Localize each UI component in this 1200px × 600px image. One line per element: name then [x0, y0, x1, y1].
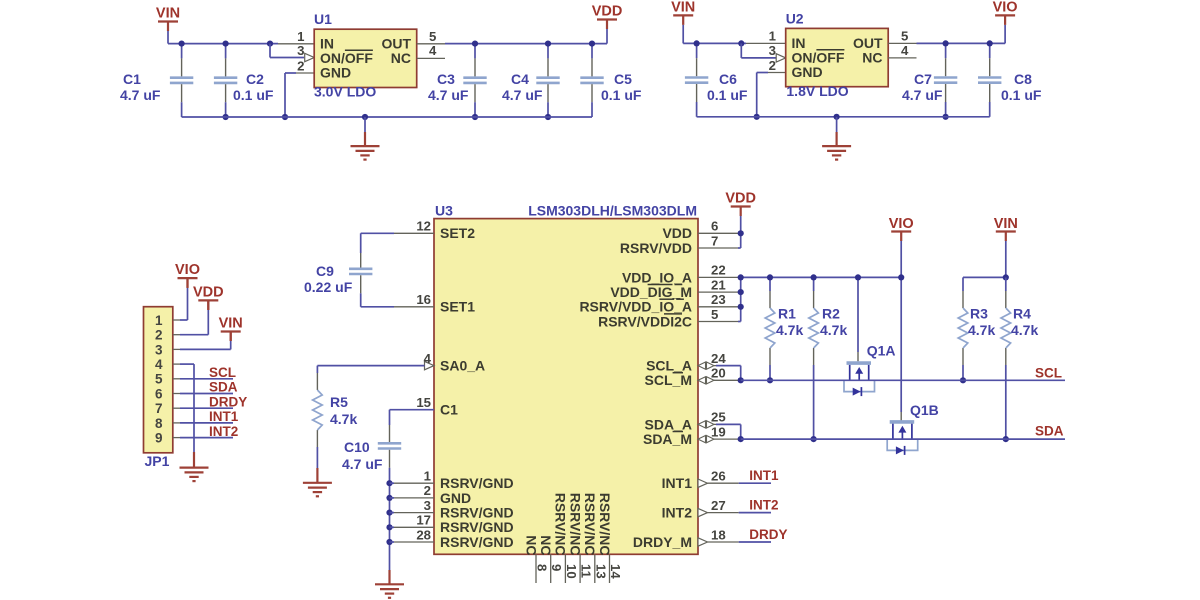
wire Q1A gate [857, 277, 859, 352]
svg-text:SDA_M: SDA_M [643, 431, 692, 447]
node C3 bottom [472, 114, 478, 120]
pin 18 U3 DRDY_M [698, 538, 708, 546]
ground R5 [303, 482, 332, 484]
wire R3/R4 top rail [963, 276, 1006, 278]
svg-text:5: 5 [155, 372, 163, 387]
pin 8 JP1 [173, 422, 180, 424]
svg-text:8: 8 [535, 564, 550, 571]
svg-text:VIN: VIN [994, 216, 1018, 232]
pin 14 U3 RSRV/NC (bottom) [609, 554, 611, 583]
svg-text:0.1 uF: 0.1 uF [1001, 87, 1042, 103]
node C2 bottom [223, 114, 229, 120]
node gnd rail pin row 20 [386, 524, 392, 530]
svg-text:RSRV/GND: RSRV/GND [440, 534, 514, 550]
node R2 bottom [811, 436, 817, 442]
wire JP1 SDA net [180, 393, 233, 395]
pin 16 U3 SET1 [394, 306, 434, 308]
pin 4 U2 [888, 57, 916, 59]
svg-text:9: 9 [549, 564, 564, 571]
node C5 top [589, 41, 595, 47]
transistor Q1B [890, 420, 915, 424]
resistor R5 [316, 373, 318, 390]
node Q1A gate rail [855, 274, 861, 280]
wire JP1 pin4 to ground [180, 363, 194, 365]
svg-text:VIN: VIN [671, 0, 695, 16]
wire SET1 net [361, 306, 394, 308]
capacitor C1 [181, 44, 183, 59]
pin 28 U3 RSRV/GND [394, 541, 434, 543]
transistor Q1A [847, 361, 872, 365]
capacitor C3 [474, 44, 476, 59]
svg-text:C6: C6 [719, 71, 737, 87]
svg-text:4.7 uF: 4.7 uF [342, 456, 383, 472]
svg-text:17: 17 [416, 513, 431, 528]
svg-text:C5: C5 [614, 71, 632, 87]
svg-text:ON/OFF: ON/OFF [320, 50, 373, 66]
svg-text:11: 11 [579, 564, 594, 578]
pin 19 U3 SDA_M [698, 436, 706, 443]
svg-text:6: 6 [711, 219, 718, 234]
wire U1 output rail [445, 43, 607, 45]
pin 4 U1 [417, 57, 445, 59]
svg-text:INT1: INT1 [662, 475, 693, 491]
wire ON/OFF branch U1 [267, 41, 273, 47]
node gnd rail pin row 21 [386, 539, 392, 545]
svg-text:4.7k: 4.7k [330, 411, 357, 427]
capacitor C4 [547, 44, 549, 59]
svg-text:9: 9 [155, 431, 163, 446]
ic U3 LSM303DLH/LSM303DLM [434, 219, 698, 555]
wire C1 pin net [390, 409, 435, 411]
wire VIN to U2 rail [682, 25, 684, 44]
svg-text:C8: C8 [1014, 71, 1032, 87]
svg-text:DRDY: DRDY [209, 394, 247, 409]
node SDA junction [738, 436, 744, 442]
pin 25 U3 SDA_A [698, 421, 706, 428]
wire JP1 SCL net [180, 378, 233, 380]
connector JP1 [144, 307, 173, 453]
wire VIO down to Q1B gate [900, 241, 902, 277]
node R3 bottom [960, 377, 966, 383]
svg-text:5: 5 [711, 307, 718, 322]
pin 17 U3 RSRV/GND [394, 526, 434, 528]
svg-text:LSM303DLH/LSM303DLM: LSM303DLH/LSM303DLM [528, 203, 697, 219]
wire JP1 INT1 net [180, 422, 233, 424]
pin 26 U3 INT1 [698, 479, 708, 487]
svg-text:5: 5 [429, 29, 436, 44]
svg-text:7: 7 [711, 233, 718, 248]
svg-text:4.7k: 4.7k [776, 322, 803, 338]
svg-text:R4: R4 [1013, 306, 1031, 322]
svg-text:VDD: VDD [662, 225, 692, 241]
pin 15 U3 C1 [394, 409, 434, 411]
wire SA0_A net [317, 365, 424, 367]
wire JP1 INT2 net [180, 437, 233, 439]
wire VIO rail (pin 22) [738, 276, 901, 278]
wire VIN stem [1005, 241, 1007, 277]
svg-text:R1: R1 [778, 306, 796, 322]
svg-text:3: 3 [155, 342, 163, 357]
svg-text:10: 10 [564, 564, 579, 579]
svg-text:VIO: VIO [889, 216, 914, 232]
svg-text:RSRV/VDD: RSRV/VDD [620, 240, 692, 256]
svg-text:5: 5 [901, 29, 908, 44]
node C2 top [223, 41, 229, 47]
svg-text:4.7k: 4.7k [820, 322, 847, 338]
capacitor C7 [945, 43, 947, 58]
svg-text:1.8V LDO: 1.8V LDO [786, 83, 848, 99]
wire VDD to pins 6-7 [740, 216, 742, 248]
capacitor C6 [696, 43, 698, 58]
pin 12 U3 SET2 [394, 232, 434, 234]
wire JP1 pin2 to VDD [180, 334, 208, 336]
pin 6 U3 VDD [698, 232, 738, 234]
wire pins 21/23/5 bus [740, 277, 742, 321]
node R4 bottom [1003, 436, 1009, 442]
svg-text:3: 3 [769, 43, 776, 58]
pin 1 U1 [278, 43, 314, 45]
pin 2 U2 [768, 72, 786, 74]
pin 3 U3 RSRV/GND [394, 512, 434, 514]
wire R5 to ground [316, 454, 318, 468]
svg-text:SET2: SET2 [440, 225, 475, 241]
wire gnd stem U3 [388, 570, 390, 584]
node U2 gnd corner [754, 114, 760, 120]
svg-text:GND: GND [440, 490, 471, 506]
svg-text:NC: NC [523, 535, 539, 555]
svg-text:C1: C1 [440, 402, 458, 418]
svg-text:SET1: SET1 [440, 299, 475, 315]
pin 22 U3 VDD_IO_A [698, 276, 738, 278]
node gnd rail pin row 19 [386, 509, 392, 515]
svg-text:20: 20 [711, 366, 726, 381]
pin 3 U1 [305, 53, 315, 61]
wire U2 ground rail [697, 116, 990, 118]
pin 3 JP1 [173, 348, 180, 350]
wire INT1 net [739, 482, 771, 484]
svg-text:4: 4 [424, 351, 432, 366]
svg-text:SDA_A: SDA_A [645, 416, 692, 432]
resistor R3 [962, 277, 964, 291]
svg-text:2: 2 [155, 328, 163, 343]
pin 5 U1 [417, 43, 445, 45]
svg-text:INT1: INT1 [209, 409, 239, 424]
svg-text:Q1A: Q1A [867, 343, 896, 359]
resistor R2 [813, 277, 815, 291]
svg-text:IN: IN [320, 35, 334, 51]
node C7 top [943, 40, 949, 46]
svg-text:C7: C7 [914, 71, 932, 87]
node C6 top [694, 40, 700, 46]
svg-text:VIO: VIO [175, 262, 200, 278]
svg-text:C9: C9 [316, 263, 334, 279]
capacitor C9 [360, 253, 362, 268]
svg-text:GND: GND [320, 65, 351, 81]
svg-text:15: 15 [416, 395, 431, 410]
node C8 top [987, 40, 993, 46]
node C4 bottom [545, 114, 551, 120]
svg-text:INT2: INT2 [749, 498, 778, 513]
svg-text:3: 3 [424, 498, 431, 513]
node bus pin23 [738, 304, 744, 310]
svg-text:1: 1 [769, 29, 776, 44]
svg-text:4: 4 [155, 357, 163, 372]
svg-text:JP1: JP1 [145, 453, 170, 469]
pin 2 U1 [296, 72, 314, 74]
wire SCL rail [741, 379, 1065, 381]
svg-text:RSRV/GND: RSRV/GND [440, 505, 514, 521]
svg-text:VDD_IO_A: VDD_IO_A [622, 269, 692, 285]
svg-text:C3: C3 [437, 71, 455, 87]
ground U1 [351, 145, 380, 147]
svg-text:RSRV/NC: RSRV/NC [597, 493, 613, 556]
pin 23 U3 RSRV/VDD_IO_A [698, 306, 738, 308]
svg-text:DRDY_M: DRDY_M [633, 534, 692, 550]
svg-text:25: 25 [711, 410, 726, 425]
node C7 bottom [943, 114, 949, 120]
pin 1 JP1 [173, 319, 180, 321]
wire JP1 pin3 to VIN [180, 348, 231, 350]
svg-text:12: 12 [416, 219, 431, 234]
pin 3 U2 [776, 54, 786, 62]
node VDD pin6 [738, 230, 744, 236]
wire JP1 pin1 to VIO [180, 319, 188, 321]
pin 24 U3 SCL_A [698, 362, 706, 369]
pin 4 JP1 [173, 363, 180, 365]
svg-text:VIN: VIN [156, 6, 180, 22]
svg-text:3: 3 [297, 43, 304, 58]
svg-text:RSRV/NC: RSRV/NC [553, 493, 569, 556]
svg-text:4.7k: 4.7k [1011, 322, 1038, 338]
svg-text:0.22 uF: 0.22 uF [304, 279, 353, 295]
pin 9 U3 NC (bottom) [550, 554, 552, 583]
node bus pin22 [738, 274, 744, 280]
svg-text:4.7k: 4.7k [968, 322, 995, 338]
svg-text:13: 13 [593, 564, 608, 579]
svg-text:1: 1 [155, 313, 163, 328]
wire gnd stem U2 [836, 117, 838, 132]
svg-text:0.1 uF: 0.1 uF [233, 87, 274, 103]
svg-text:C10: C10 [344, 439, 370, 455]
capacitor C2 [225, 44, 227, 59]
regulator U2 [786, 28, 889, 86]
svg-text:SCL_M: SCL_M [645, 372, 692, 388]
svg-text:VIO: VIO [993, 0, 1018, 16]
svg-text:RSRV/VDDI2C: RSRV/VDDI2C [598, 313, 692, 329]
node gnd rail pin row 18 [386, 495, 392, 501]
svg-text:19: 19 [711, 424, 726, 439]
pin 20 U3 SCL_M [698, 377, 706, 384]
svg-text:ON/OFF: ON/OFF [792, 50, 845, 66]
pin 5 JP1 [173, 378, 180, 380]
node R1 top [767, 274, 773, 280]
svg-text:INT1: INT1 [749, 468, 779, 483]
pin 7 U3 RSRV/VDD [698, 247, 738, 249]
svg-text:4: 4 [429, 43, 437, 58]
svg-text:U3: U3 [435, 203, 453, 219]
pin 2 U3 GND [394, 497, 434, 499]
node VIO rail [898, 274, 904, 280]
node gnd rail tap U1 [362, 114, 368, 120]
wire SDA_A bracket [716, 423, 741, 425]
wire ON/OFF branch U2 [738, 40, 744, 46]
svg-text:IN: IN [792, 35, 806, 51]
svg-text:4.7 uF: 4.7 uF [502, 87, 543, 103]
node R2 top [811, 274, 817, 280]
svg-text:Q1B: Q1B [910, 402, 939, 418]
svg-text:4.7 uF: 4.7 uF [428, 87, 469, 103]
wire SCL_A bracket [716, 365, 741, 367]
pin 27 U3 INT2 [698, 508, 708, 516]
svg-text:SCL: SCL [209, 365, 236, 380]
svg-text:2: 2 [424, 483, 431, 498]
svg-text:VDD: VDD [725, 191, 756, 207]
svg-text:2: 2 [769, 58, 776, 73]
svg-text:SDA: SDA [209, 380, 238, 395]
svg-text:R5: R5 [330, 394, 348, 410]
svg-text:3.0V LDO: 3.0V LDO [314, 84, 376, 100]
svg-text:22: 22 [711, 263, 726, 278]
node C1 top [179, 41, 185, 47]
svg-text:4: 4 [901, 43, 909, 58]
wire SDA rail [741, 438, 1065, 440]
pin 1 U2 [746, 42, 786, 44]
svg-text:C2: C2 [246, 71, 264, 87]
wire VIN to top rail [167, 31, 169, 44]
svg-text:4.7 uF: 4.7 uF [902, 87, 943, 103]
wire U2 output rail [917, 42, 1006, 44]
svg-text:16: 16 [416, 292, 431, 307]
svg-text:7: 7 [155, 401, 163, 416]
svg-text:OUT: OUT [381, 35, 411, 51]
svg-text:C1: C1 [123, 71, 141, 87]
svg-text:INT2: INT2 [662, 505, 693, 521]
svg-text:18: 18 [711, 527, 726, 542]
pin 1 U3 RSRV/GND [394, 482, 434, 484]
node C4 top [545, 41, 551, 47]
wire U1 ground rail [182, 116, 592, 118]
svg-text:VIN: VIN [219, 315, 243, 331]
svg-text:R2: R2 [822, 306, 840, 322]
svg-text:24: 24 [711, 351, 726, 366]
node U1 gnd corner [282, 114, 288, 120]
wire gnd stem U1 [364, 117, 366, 132]
wire GND pin U2 [757, 72, 768, 74]
svg-text:RSRV/NC: RSRV/NC [582, 493, 598, 556]
wire DRDY net [739, 541, 771, 543]
svg-text:VDD_DIG_M: VDD_DIG_M [610, 284, 692, 300]
node C3 top [472, 41, 478, 47]
svg-text:2: 2 [297, 58, 304, 73]
wire gnd pin rail U3 [389, 470, 391, 570]
ground JP1 [180, 467, 209, 469]
svg-text:SA0_A: SA0_A [440, 358, 485, 374]
svg-text:VDD: VDD [193, 284, 224, 300]
svg-text:SCL: SCL [1035, 366, 1062, 381]
wire JP1 DRDY net [180, 407, 233, 409]
resistor R4 [1005, 277, 1007, 291]
svg-text:NC: NC [391, 50, 411, 66]
node gnd rail pin row 17 [386, 480, 392, 486]
svg-text:0.1 uF: 0.1 uF [601, 87, 642, 103]
ground U2 [822, 145, 851, 147]
svg-text:C4: C4 [511, 71, 529, 87]
svg-text:1: 1 [297, 29, 304, 44]
svg-text:RSRV/GND: RSRV/GND [440, 519, 514, 535]
pin 2 JP1 [173, 334, 180, 336]
resistor R1 [769, 277, 771, 291]
svg-text:4.7 uF: 4.7 uF [120, 87, 161, 103]
pin 6 JP1 [173, 393, 180, 395]
overline marks U3 pin names [648, 284, 673, 286]
wire GND pin U1 [285, 72, 296, 74]
wire INT2 net [739, 512, 771, 514]
svg-text:RSRV/NC: RSRV/NC [567, 493, 583, 556]
pin 5 U2 [888, 42, 916, 44]
svg-text:NC: NC [862, 50, 882, 66]
node SCL junction [738, 377, 744, 383]
svg-text:SDA: SDA [1035, 424, 1064, 439]
svg-text:6: 6 [155, 386, 163, 401]
svg-text:28: 28 [416, 527, 431, 542]
pin 9 JP1 [173, 437, 180, 439]
node R4 top [1003, 274, 1009, 280]
svg-text:RSRV/VDD_IO_A: RSRV/VDD_IO_A [579, 299, 692, 315]
pin 13 U3 RSRV/NC (bottom) [594, 554, 596, 583]
ground U3 [375, 583, 404, 585]
pin 8 U3 NC (bottom) [535, 554, 537, 583]
svg-text:21: 21 [711, 277, 726, 292]
svg-text:0.1 uF: 0.1 uF [707, 87, 748, 103]
svg-text:27: 27 [711, 498, 726, 513]
svg-text:OUT: OUT [853, 35, 883, 51]
pin 21 U3 VDD_DIG_M [698, 291, 738, 293]
pin 4 U3 SA0_A [425, 361, 435, 369]
pin 10 U3 RSRV/NC (bottom) [564, 554, 566, 583]
svg-text:8: 8 [155, 416, 163, 431]
svg-text:1: 1 [424, 469, 431, 484]
node gnd rail tap U2 [834, 114, 840, 120]
wire SET2 net [361, 232, 394, 234]
svg-text:23: 23 [711, 292, 726, 307]
svg-text:DRDY: DRDY [749, 527, 787, 542]
pin 5 U3 RSRV/VDDI2C [698, 321, 738, 323]
svg-text:GND: GND [792, 64, 823, 80]
pin 7 JP1 [173, 407, 180, 409]
svg-text:NC: NC [538, 535, 554, 555]
svg-text:RSRV/GND: RSRV/GND [440, 475, 514, 491]
svg-text:14: 14 [608, 564, 623, 579]
regulator U1 [314, 29, 417, 87]
svg-text:SCL_A: SCL_A [646, 358, 692, 374]
capacitor C10 [389, 425, 391, 442]
pin 11 U3 RSRV/NC (bottom) [579, 554, 581, 583]
capacitor C5 [591, 44, 593, 59]
node R1 bottom [767, 377, 773, 383]
capacitor C8 [989, 43, 991, 58]
svg-text:26: 26 [711, 469, 726, 484]
node bus pin21 [738, 289, 744, 295]
svg-text:U2: U2 [786, 11, 804, 27]
svg-text:INT2: INT2 [209, 424, 238, 439]
svg-text:U1: U1 [314, 11, 332, 27]
svg-text:R3: R3 [970, 306, 988, 322]
svg-text:VDD: VDD [592, 4, 623, 20]
